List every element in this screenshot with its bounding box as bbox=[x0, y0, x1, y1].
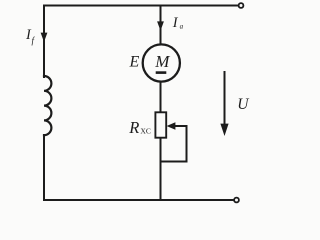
arrow rheostat wiper bbox=[167, 122, 176, 130]
svg-text:E: E bbox=[129, 54, 140, 71]
wire below rheostat bbox=[160, 138, 162, 201]
wire rheostat tap right bbox=[173, 125, 187, 127]
svg-text:XC: XC bbox=[140, 126, 151, 135]
wire left vertical lower bbox=[43, 135, 45, 200]
motor M underline bar bbox=[156, 71, 167, 74]
arrow If current bbox=[41, 33, 48, 42]
arrow Ia current bbox=[157, 21, 164, 30]
inductor L1 field winding bbox=[44, 76, 51, 135]
terminal bottom right bbox=[234, 198, 239, 203]
terminal top right bbox=[239, 3, 244, 8]
svg-text:R: R bbox=[128, 118, 139, 137]
resistor Rxc box bbox=[155, 112, 166, 137]
wire voltage U line bbox=[224, 72, 226, 126]
wire bottom horizontal bbox=[44, 199, 234, 201]
wire middle top bbox=[160, 6, 162, 45]
wire rheostat tap down bbox=[186, 126, 188, 162]
wire top horizontal bbox=[44, 5, 238, 7]
wire left vertical upper bbox=[43, 6, 45, 78]
svg-text:M: M bbox=[154, 52, 170, 71]
motor circle U1 bbox=[143, 44, 180, 81]
wire motor to rheostat bbox=[160, 82, 162, 113]
arrow U voltage bbox=[220, 124, 228, 136]
svg-text:a: a bbox=[180, 23, 184, 31]
svg-text:U: U bbox=[237, 96, 250, 113]
wire rheostat tap return bbox=[161, 161, 187, 163]
